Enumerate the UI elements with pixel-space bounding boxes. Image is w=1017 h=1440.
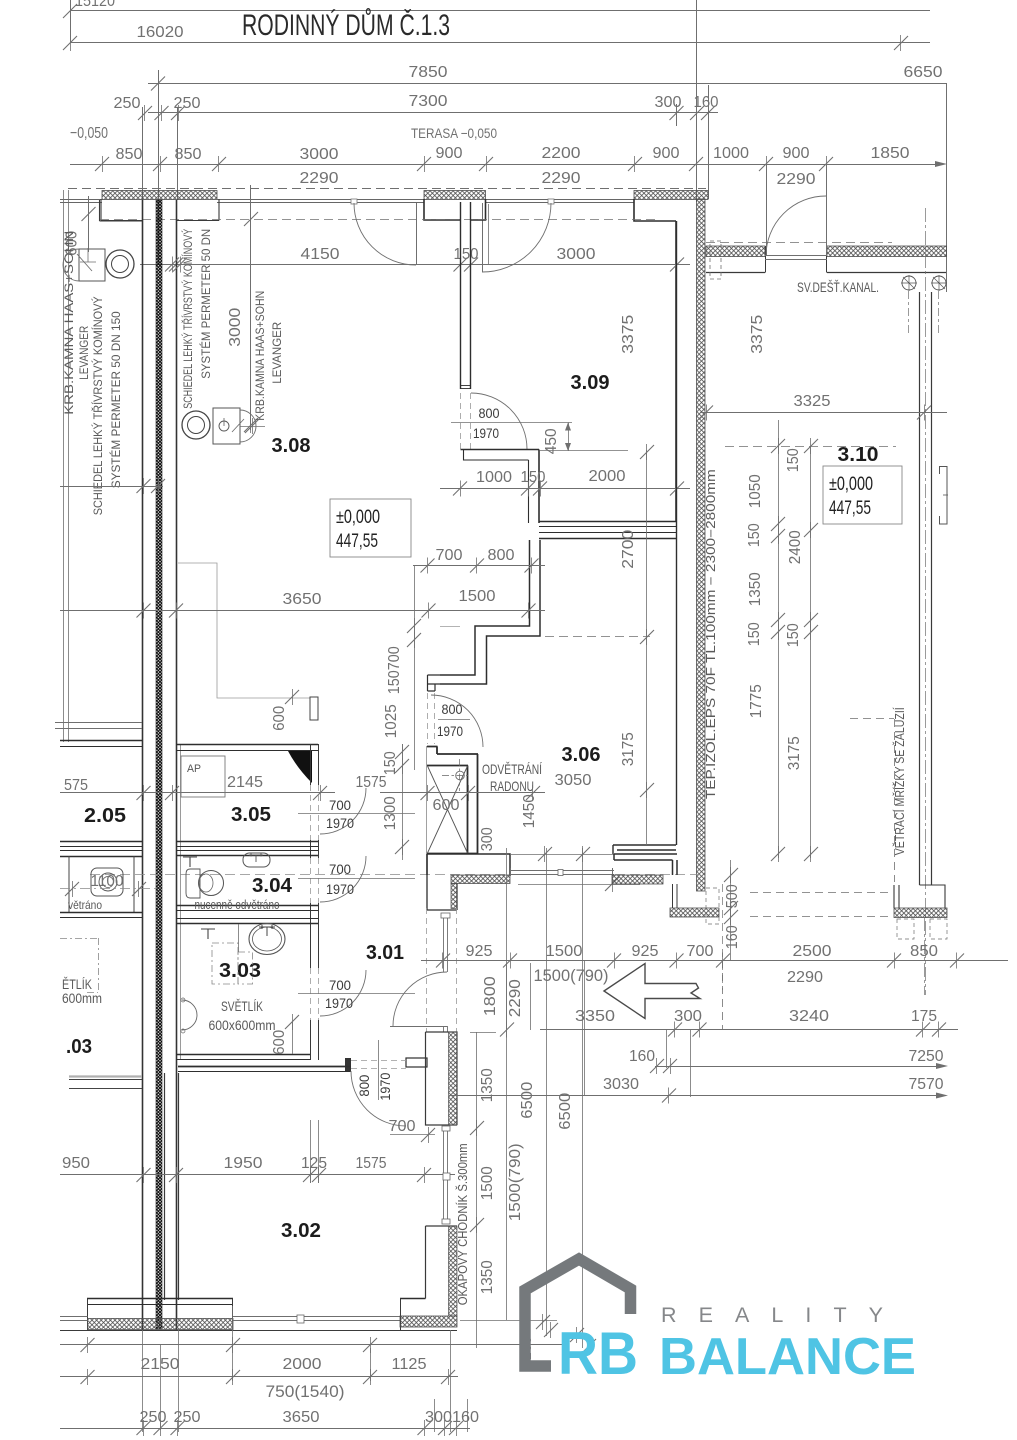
svg-text:VĚTRACÍ MŘÍŽKY SE ŽALUZIÍ: VĚTRACÍ MŘÍŽKY SE ŽALUZIÍ: [892, 707, 907, 855]
radon shaft left extension line: [426, 746, 428, 853]
svg-text:LEVANGER: LEVANGER: [272, 322, 284, 384]
svg-text:1025: 1025: [383, 704, 400, 738]
svg-text:7850: 7850: [409, 64, 448, 81]
svg-text:125: 125: [301, 1155, 327, 1172]
north wall 3.10 inner lines: [706, 272, 765, 274]
terrace door leaf and swing: [826, 196, 828, 256]
svg-text:7250: 7250: [909, 1048, 944, 1065]
door 3.03 corridor: [310, 968, 312, 1020]
svg-text:900: 900: [653, 145, 680, 162]
door 3.05 south swing: [431, 695, 483, 747]
wall 3.03 bottom: [176, 1054, 310, 1056]
svg-text:3375: 3375: [620, 315, 637, 354]
wall 3.04 bottom: [176, 905, 318, 907]
svg-text:750(1540): 750(1540): [266, 1382, 345, 1401]
svg-text:6500: 6500: [557, 1093, 574, 1130]
east terrace wall double line: [919, 292, 921, 885]
svg-text:160: 160: [724, 925, 741, 949]
corridor east wall block: [426, 1032, 458, 1125]
svg-text:800: 800: [479, 405, 500, 421]
left unit inner wall corner top: [100, 200, 143, 221]
cleanout arc 3.03 west wall: [182, 1000, 197, 1030]
terrace wall bottom corner: [894, 885, 945, 908]
party wall double line with insulation core: [142, 200, 144, 1330]
svg-text:6500: 6500: [519, 1082, 536, 1119]
svg-text:3.08: 3.08: [272, 435, 311, 457]
toilet 3.04: [199, 871, 224, 896]
corridor top wall pier: [427, 854, 457, 910]
left unit wall below bathroom: [60, 912, 142, 914]
3.10 interior dim verticals: [778, 420, 780, 858]
light shaft dash rects 3.03: [212, 943, 238, 984]
wall stub rect 3.08 corner: [310, 697, 318, 720]
svg-text:−0,050: −0,050: [70, 125, 108, 142]
AP box washing machine: [181, 756, 225, 797]
dim line 1000/150/2000 y488: [440, 488, 690, 490]
svg-text:±0,000: ±0,000: [829, 474, 873, 495]
top dimension line 850/850/3000/900/2200/900/1000/900/1850: [70, 164, 940, 166]
room 3.02 top wall: [178, 1066, 351, 1068]
svg-text:150: 150: [386, 670, 403, 694]
svg-text:2400: 2400: [787, 530, 804, 564]
svg-text:2000: 2000: [589, 468, 626, 485]
window glass band 3.09: [486, 199, 635, 201]
corridor west wall: [310, 744, 312, 785]
dashed squares below terrace corner: [897, 919, 914, 939]
svg-text:1350: 1350: [747, 572, 764, 606]
door 3.09 swing arc: [471, 393, 527, 449]
svg-text:větráno: větráno: [68, 898, 102, 912]
terrace wall axis dash-dot: [925, 208, 927, 995]
svg-text:2500: 2500: [793, 943, 832, 960]
svg-text:150: 150: [382, 751, 399, 775]
svg-text:RADONU: RADONU: [490, 778, 534, 794]
title block line top: [70, 10, 930, 12]
svg-text:3000: 3000: [557, 246, 596, 263]
east wall 3.06 vertical: [676, 221, 678, 845]
svg-text:2150: 2150: [141, 1356, 180, 1373]
svg-text:2700: 2700: [620, 530, 637, 569]
svg-text:850: 850: [116, 146, 143, 163]
east wall bottom corner hatch: [670, 908, 719, 917]
extension x477 x507: [476, 1032, 478, 1348]
svg-text:2290: 2290: [542, 170, 581, 187]
svg-text:SYSTÉM PERMETER 50 DN: SYSTÉM PERMETER 50 DN: [200, 229, 213, 379]
svg-text:150: 150: [454, 246, 479, 263]
glass line neighbour: [60, 199, 102, 201]
construction line y113: [148, 112, 718, 114]
svg-text:300: 300: [674, 1008, 702, 1025]
left unit window south: [69, 1075, 142, 1077]
left unit west edge lines: [63, 190, 65, 742]
svg-text:575: 575: [64, 777, 88, 794]
dashed facade line y189: [68, 188, 706, 190]
svg-text:2000: 2000: [283, 1356, 322, 1373]
svg-text:1850: 1850: [871, 145, 910, 162]
svg-text:3.05: 3.05: [231, 804, 271, 826]
corridor top wall right part: [614, 854, 677, 875]
svg-text:4150: 4150: [301, 246, 340, 263]
svg-text:1500: 1500: [479, 1166, 496, 1200]
3.06 east wall corner bottom: [613, 845, 676, 854]
svg-text:2200: 2200: [542, 145, 581, 162]
svg-text:1000: 1000: [476, 469, 512, 486]
svg-text:TERASA −0,050: TERASA −0,050: [411, 125, 497, 141]
svg-text:RB: RB: [558, 1320, 638, 1387]
svg-text:1125: 1125: [392, 1356, 427, 1373]
tap symbol 3.04: [183, 857, 197, 867]
svg-text:250: 250: [140, 1409, 167, 1426]
radon shaft axis symbol: [456, 771, 465, 780]
dim line 700/800 y565: [413, 565, 545, 567]
dashed line y219: [100, 219, 660, 221]
door 3.05 corridor: [310, 785, 312, 840]
svg-text:3175: 3175: [786, 736, 803, 770]
svg-text:1970: 1970: [437, 723, 463, 739]
svg-text:SCHIEDEL LEHKÝ TŘÍVRSTVÝ KO: SCHIEDEL LEHKÝ TŘÍVRSTVÝ KOMÍNOVÝ: [182, 229, 195, 409]
wall pier left x102-217: [101, 199, 219, 221]
wall 3.09 bottom / 3.06 top: [539, 521, 677, 523]
svg-text:3.04: 3.04: [252, 875, 293, 897]
svg-text:SCHIEDEL LEHKÝ TŘÍVRSTVÝ KO: SCHIEDEL LEHKÝ TŘÍVRSTVÝ KOMÍNOVÝ: [92, 296, 105, 515]
svg-text:1450: 1450: [521, 794, 538, 828]
svg-text:3.06: 3.06: [562, 744, 601, 766]
construction line y83: [148, 83, 947, 85]
svg-text:BALANCE: BALANCE: [659, 1328, 916, 1386]
wall 3.04 top: [176, 850, 318, 852]
window glass band 3.08: [217, 199, 424, 201]
left unit bathroom box: [69, 856, 134, 912]
wall pier mid T x424-486: [424, 199, 486, 220]
svg-text:925: 925: [632, 943, 659, 960]
svg-text:2.05: 2.05: [84, 805, 126, 827]
svg-text:600: 600: [433, 797, 460, 814]
north wall insulation hatch segment 2: [424, 191, 486, 200]
terrace door sill: [765, 255, 827, 257]
axis dashed line y874: [90, 874, 700, 876]
svg-text:KRB.KAMNA HAAS+SOHN: KRB.KAMNA HAAS+SOHN: [64, 231, 76, 415]
svg-text:1970: 1970: [326, 881, 354, 897]
svg-text:1050: 1050: [747, 474, 764, 508]
door 3.09 jamb dashes: [460, 393, 462, 449]
svg-text:150: 150: [746, 523, 763, 547]
right stove symbol 3.08: [182, 411, 210, 439]
room 3.02 left wall: [164, 1073, 166, 1300]
svg-text:1970: 1970: [325, 995, 353, 1011]
svg-text:1100: 1100: [91, 873, 124, 890]
partition wall 3.08-3.09 shaft: [460, 202, 462, 389]
dims 3030 7570: [449, 1095, 940, 1097]
left unit bathtub: [91, 868, 123, 896]
svg-text:900: 900: [436, 145, 463, 162]
door frame extension 3.09 north: [488, 204, 490, 264]
svg-text:1970: 1970: [473, 425, 499, 441]
svg-text:15120: 15120: [75, 0, 115, 10]
svg-text:KRB.KAMNA HAAS+SOHN: KRB.KAMNA HAAS+SOHN: [255, 291, 267, 421]
door 3.02 dashes: [351, 1060, 406, 1062]
wall 3.05/3.04: [176, 841, 318, 843]
dashed overhang lines right: [894, 719, 896, 882]
extension verticals bottom dims: [142, 1330, 144, 1432]
svg-text:850: 850: [175, 146, 202, 163]
window bracket east wall: [939, 467, 947, 525]
east top wall vertical hatch: [697, 199, 706, 891]
left unit wall 2.05 bottom: [60, 841, 142, 843]
svg-text:160: 160: [629, 1048, 655, 1065]
corridor bottom wall right stub: [406, 1058, 427, 1067]
tap symbol 3.03: [201, 929, 215, 939]
zigzag wall left end caps: [428, 675, 441, 691]
south east corner wall: [400, 1316, 457, 1327]
svg-text:800: 800: [442, 701, 463, 717]
svg-text:3.10: 3.10: [838, 444, 879, 466]
outer south line: [60, 1330, 457, 1332]
floor edge line 3.08 light: [178, 563, 310, 698]
svg-text:447,55: 447,55: [336, 531, 378, 552]
svg-text:3350: 3350: [575, 1008, 615, 1025]
door 3.05 south jamb dashes: [427, 693, 429, 744]
svg-text:150: 150: [785, 448, 802, 472]
svg-text:700: 700: [329, 797, 351, 813]
svg-text:250: 250: [114, 95, 141, 112]
svg-text:3.01: 3.01: [366, 942, 404, 964]
wall below 3.09 door corner: [461, 449, 540, 451]
thin wall line across 3.06 window: [510, 854, 614, 856]
corridor entry door swing: [390, 1026, 447, 1028]
svg-text:600: 600: [271, 706, 288, 731]
svg-text:2290: 2290: [777, 171, 816, 188]
sink 3.04: [243, 853, 270, 867]
dim line y793: [60, 792, 335, 794]
svg-text:1500(790): 1500(790): [507, 1143, 524, 1221]
corridor east window wall: [443, 913, 445, 972]
svg-text:700: 700: [389, 1118, 416, 1135]
corridor top wall left part: [427, 854, 510, 875]
north wall insulation hatch segment 1: [102, 191, 217, 200]
dim line y1345: [60, 1344, 563, 1346]
dashed interior line 3.10 y446: [725, 446, 896, 448]
east window 3.02: [443, 1128, 445, 1224]
south window neighbour: [60, 1316, 88, 1318]
svg-text:160: 160: [694, 94, 719, 111]
svg-text:1970: 1970: [377, 1072, 393, 1100]
svg-text:1000: 1000: [713, 145, 749, 162]
svg-text:2145: 2145: [227, 774, 263, 791]
north wall insulation hatch segment 3: [634, 191, 708, 200]
entrance arrow: [604, 964, 700, 1019]
svg-text:1950: 1950: [224, 1155, 263, 1172]
svg-text:1350: 1350: [479, 1068, 496, 1102]
svg-text:600mm: 600mm: [62, 990, 102, 1006]
sink 3.03 big: [249, 924, 285, 955]
svg-text:1350: 1350: [479, 1260, 496, 1294]
left stove symbol: [79, 249, 105, 281]
svg-text:300160: 300160: [425, 1409, 479, 1426]
svg-text:447,55: 447,55: [829, 498, 871, 519]
wall 3.03 top: [176, 918, 318, 920]
svg-text:700: 700: [329, 861, 351, 877]
vertical dim chain x402 150/1300: [402, 744, 404, 860]
door swing 3.09 north: [548, 199, 554, 204]
svg-text:3000: 3000: [227, 308, 244, 347]
svg-text:2290: 2290: [300, 170, 339, 187]
main dim line y960: [421, 960, 1008, 962]
svg-text:SV.DEŠŤ.KANAL.: SV.DEŠŤ.KANAL.: [797, 279, 879, 295]
svg-text:.03: .03: [66, 1036, 92, 1058]
level box 3.08: [330, 499, 411, 557]
svg-text:300: 300: [655, 94, 682, 111]
construction verticals top: [158, 70, 160, 264]
svg-text:925: 925: [466, 943, 493, 960]
dims 160 7250: [655, 1066, 940, 1068]
south window 3.02: [233, 1316, 400, 1318]
dim line y1428 250/250/3650/300/160: [60, 1428, 470, 1430]
dim line y486 left segment party wall: [60, 486, 163, 488]
svg-text:900: 900: [783, 145, 810, 162]
svg-text:16020: 16020: [137, 24, 184, 41]
svg-text:7570: 7570: [909, 1076, 944, 1093]
svg-text:3375: 3375: [749, 315, 766, 354]
dim line 3650/1500 y610: [60, 610, 545, 612]
svg-text:nucenně odvětráno: nucenně odvětráno: [195, 898, 280, 912]
lower north wall hatch right segment: [827, 246, 947, 257]
dim line 3325 y412: [700, 412, 947, 414]
dashed rect at east wall end: [706, 888, 719, 924]
radon shaft diagonals: [428, 766, 468, 853]
dim line y1175 950/1950/125/1575: [60, 1174, 455, 1176]
lower north wall hatch left segment: [706, 246, 765, 257]
svg-text:800: 800: [488, 547, 515, 564]
downspout symbol 1: [902, 276, 916, 290]
svg-text:3325: 3325: [794, 393, 831, 410]
svg-text:150: 150: [785, 623, 802, 647]
zigzag wall 3.05/3.08 boundary outer: [440, 540, 540, 684]
dashed line y242 right: [706, 242, 892, 244]
long extension verticals bottom: [546, 848, 548, 1336]
south wall 3.02: [87, 1298, 233, 1300]
door swing 3.08 north: [351, 199, 357, 204]
svg-text:SYSTÉM PERMETER 50 DN 150: SYSTÉM PERMETER 50 DN 150: [110, 311, 123, 488]
svg-text:150: 150: [521, 469, 546, 486]
corridor bottom wall left: [178, 1066, 351, 1068]
svg-text:7300: 7300: [409, 93, 448, 110]
svg-text:3050: 3050: [555, 772, 592, 789]
left unit wall top: [60, 740, 142, 742]
svg-text:1575: 1575: [356, 1155, 387, 1172]
dashed line right of zigzag: [545, 636, 650, 638]
svg-text:3.09: 3.09: [571, 372, 610, 394]
svg-text:1575: 1575: [356, 774, 387, 791]
line under title: [70, 42, 930, 44]
wall pier right corner x634-708: [634, 199, 676, 522]
dims 3350 300 3240 175: [540, 1029, 958, 1031]
svg-text:RODINNÝ DŮM Č.1.3: RODINNÝ DŮM Č.1.3: [242, 8, 450, 42]
svg-text:3.02: 3.02: [281, 1220, 321, 1242]
dim line y264 left ticks: [165, 258, 179, 272]
dashed lines terrace overhang y892 y917: [750, 892, 892, 894]
svg-text:OKAPOVÝ CHODNÍK Š.300mm: OKAPOVÝ CHODNÍK Š.300mm: [455, 1143, 470, 1305]
svg-text:2290: 2290: [507, 979, 524, 1017]
dim extension x379 corridor: [378, 1040, 380, 1100]
svg-text:AP: AP: [187, 763, 201, 775]
svg-text:6650: 6650: [904, 64, 943, 81]
svg-text:1775: 1775: [748, 684, 765, 718]
svg-text:SVĚTLÍK: SVĚTLÍK: [221, 998, 263, 1014]
extension line x647 with ticks: [646, 450, 648, 845]
svg-text:700: 700: [329, 977, 351, 993]
dim line 4150/150/3000 y264: [140, 264, 690, 266]
level box 3.10: [823, 466, 902, 524]
svg-text:3.03: 3.03: [219, 960, 261, 982]
svg-text:175: 175: [911, 1008, 937, 1025]
svg-text:300: 300: [479, 827, 496, 851]
svg-text:3650: 3650: [283, 1409, 320, 1426]
black corner triangle 3.05: [288, 751, 312, 783]
svg-text:LEVANGER: LEVANGER: [79, 326, 91, 380]
svg-text:800: 800: [356, 1074, 372, 1096]
left unit light shaft dash corner: [60, 938, 98, 940]
svg-text:3030: 3030: [603, 1076, 639, 1093]
svg-text:1500: 1500: [546, 943, 583, 960]
svg-text:3175: 3175: [620, 732, 637, 766]
door 3.09 label 800/1970: [451, 422, 572, 424]
svg-text:3000: 3000: [300, 146, 339, 163]
svg-text:700: 700: [436, 547, 463, 564]
logo house outline: [525, 1259, 631, 1366]
dashed insulation rect at door: [710, 241, 721, 279]
svg-text:1970: 1970: [326, 815, 354, 831]
downspout symbol 2: [932, 276, 946, 290]
vertical dim chain x414 700/150/1025: [414, 566, 416, 770]
svg-text:600x600mm: 600x600mm: [209, 1017, 276, 1033]
corridor east wall jamb dashes: [426, 908, 428, 1032]
svg-text:1800: 1800: [482, 976, 499, 1016]
svg-text:600: 600: [271, 1030, 288, 1055]
svg-text:1500: 1500: [459, 588, 496, 605]
svg-text:850: 850: [910, 943, 938, 960]
svg-text:ODVĚTRÁNÍ: ODVĚTRÁNÍ: [482, 761, 542, 777]
door 3.04 corridor: [310, 858, 312, 903]
door 3.02 swing: [351, 1071, 406, 1126]
svg-text:950: 950: [62, 1155, 90, 1172]
light floor line 3.05: [440, 626, 460, 628]
svg-text:3240: 3240: [789, 1008, 829, 1025]
svg-text:700: 700: [687, 943, 714, 960]
chimney dim 600 left: [88, 196, 90, 252]
dim line y1377 2150/2000/1125: [60, 1376, 458, 1378]
svg-text:150: 150: [746, 622, 763, 646]
window sill 3.06-3.01: [510, 870, 614, 872]
wall 3.05 top: [176, 744, 318, 746]
dim 125 extension pair: [310, 1120, 312, 1183]
radon shaft walls: [427, 747, 479, 854]
svg-text:2290: 2290: [787, 969, 823, 986]
svg-text:500: 500: [724, 884, 741, 908]
svg-text:1500(790): 1500(790): [534, 966, 609, 985]
svg-text:250: 250: [174, 1409, 201, 1426]
svg-text:TEP.IZOL.EPS 70F TL.100mm − 23: TEP.IZOL.EPS 70F TL.100mm − 2300−2800mm: [704, 469, 718, 799]
svg-text:700: 700: [386, 646, 403, 670]
svg-text:±0,000: ±0,000: [336, 507, 380, 528]
svg-text:3650: 3650: [283, 591, 322, 608]
